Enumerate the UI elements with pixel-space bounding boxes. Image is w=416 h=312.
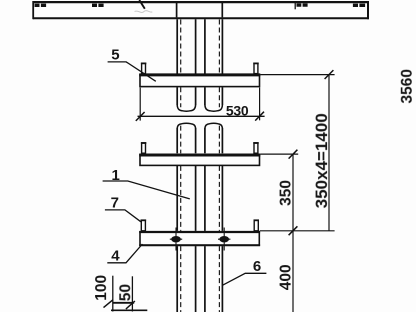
svg-text:5: 5 <box>111 47 119 64</box>
column right hidden dashed line <box>218 20 220 312</box>
svg-text:4: 4 <box>111 248 120 265</box>
dimension 530 tick left <box>136 112 145 121</box>
extension line bracket B2 right <box>260 153 298 155</box>
dimension 530 extension left <box>139 88 141 121</box>
extension line bracket B1 right <box>260 74 334 76</box>
svg-text:350: 350 <box>278 180 295 206</box>
svg-text:530: 530 <box>226 103 249 119</box>
bracket B2 right tab <box>253 143 258 153</box>
column left hidden dashed line <box>180 20 182 312</box>
beam tab 3 tail <box>294 3 296 9</box>
dimension 350x4=1400 line <box>328 75 330 231</box>
bottom base line <box>111 309 147 311</box>
dimension 350 tick top <box>289 150 298 159</box>
bottom tick A <box>104 300 113 308</box>
svg-text:3560: 3560 <box>399 69 416 103</box>
column outer left solid edge <box>176 3 179 312</box>
bracket B2 plate <box>139 155 260 166</box>
bottom tick B <box>126 301 135 309</box>
bracket B1 right tab <box>253 63 258 73</box>
bracket B1 plate <box>139 75 260 87</box>
dimension 530 line <box>138 115 265 117</box>
dimension 100 line <box>112 276 114 312</box>
svg-text:100: 100 <box>93 275 110 301</box>
bracket B3 bolt left <box>171 236 181 242</box>
beam break squiggle <box>139 0 145 9</box>
bracket B3 plate <box>139 232 260 245</box>
bracket B3 left tab <box>141 220 147 231</box>
dimension 350 line <box>292 154 294 231</box>
column break lower arcs <box>177 105 222 111</box>
dimension 350x4=1400 tick top <box>325 70 334 79</box>
beam tab 2 <box>92 4 104 7</box>
dimension 350 tick bottom <box>289 226 298 235</box>
column outer right solid edge <box>221 3 223 312</box>
beam tab 3 <box>297 3 308 6</box>
column inner right solid edge <box>204 19 206 312</box>
beam tab 4 <box>353 4 365 7</box>
beam tab 1 <box>35 4 47 7</box>
bracket B2 left tab <box>141 143 146 153</box>
svg-text:400: 400 <box>278 264 295 290</box>
bracket B1 left tab <box>141 63 146 73</box>
bracket B3 right tab <box>254 220 260 231</box>
extension line bracket B3 right <box>260 230 335 232</box>
bracket B3 bolt right <box>219 236 229 242</box>
column break upper arcs <box>177 123 222 128</box>
top beam outline <box>33 1 369 19</box>
svg-text:50: 50 <box>118 284 135 301</box>
dimension 50 line <box>131 276 133 311</box>
dimension 530 extension right <box>259 88 261 121</box>
dimension 530 tick right <box>255 112 264 121</box>
bottom short dim line <box>113 302 134 304</box>
svg-text:7: 7 <box>111 194 119 211</box>
column inner left solid edge <box>195 19 197 312</box>
svg-text:6: 6 <box>253 258 261 275</box>
dimension 400 line <box>292 231 294 312</box>
svg-text:350х4=1400: 350х4=1400 <box>312 113 331 208</box>
